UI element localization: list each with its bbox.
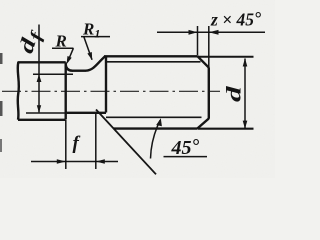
svg-text:R: R [55,32,67,51]
svg-text:d: d [221,86,245,102]
svg-text:45°: 45° [171,136,200,159]
svg-text:z × 45°: z × 45° [210,8,261,30]
